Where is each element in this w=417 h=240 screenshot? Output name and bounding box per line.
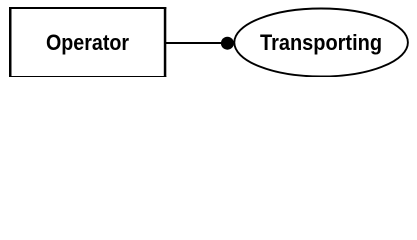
ellipse Transporting — [234, 9, 408, 77]
label Transporting — [260, 32, 382, 54]
wire — [164, 42, 224, 44]
label Operator — [46, 32, 129, 54]
node junction dot — [221, 37, 234, 50]
process box Operator — [9, 7, 166, 77]
